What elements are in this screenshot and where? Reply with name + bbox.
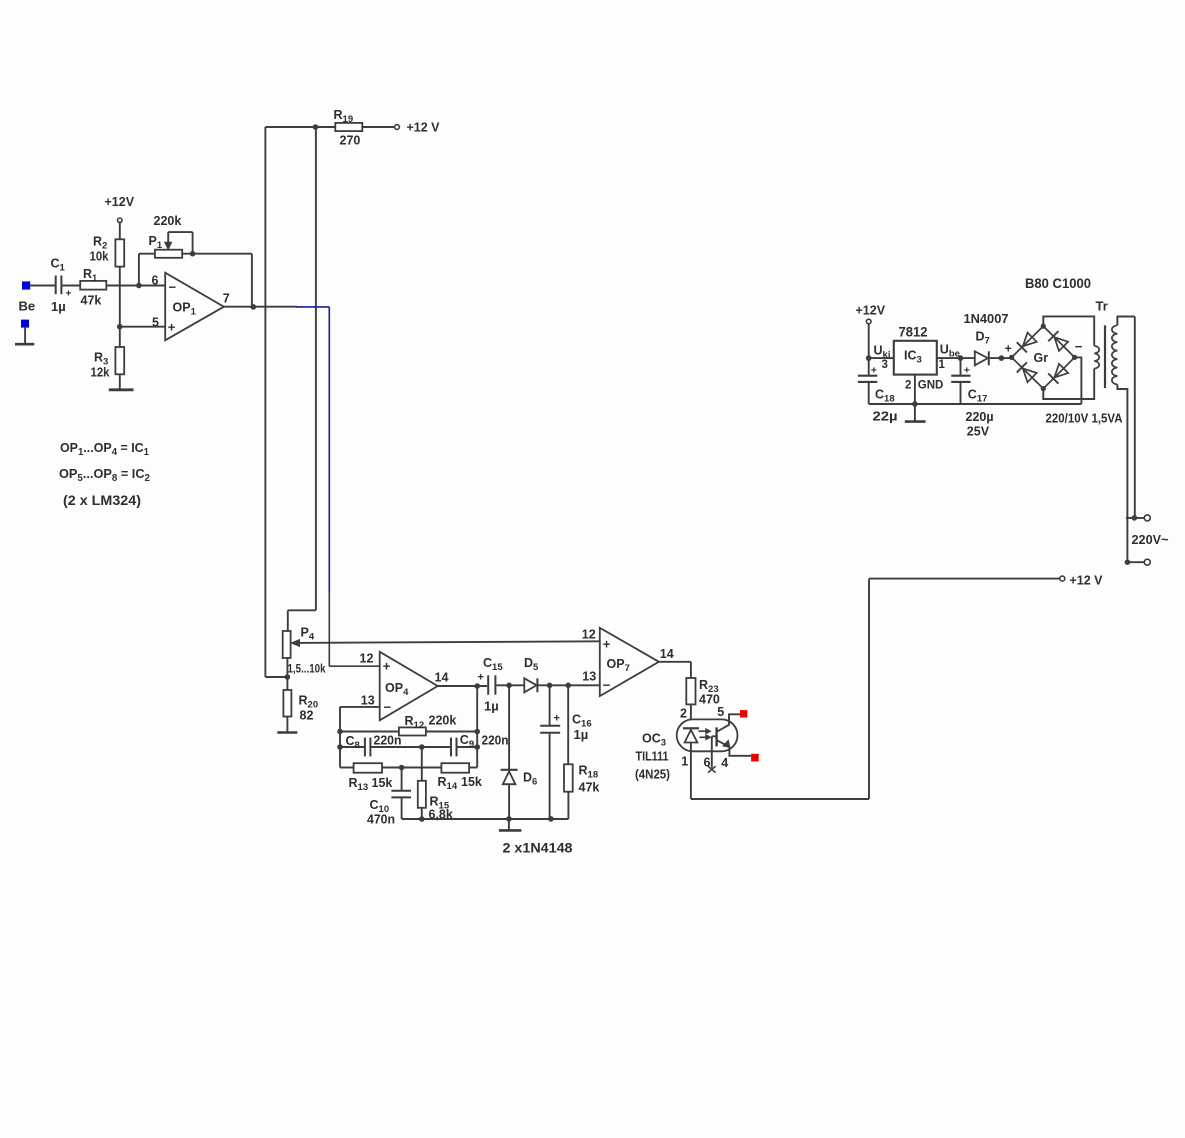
svg-text:15k: 15k <box>372 776 393 790</box>
svg-text:13: 13 <box>582 670 596 684</box>
svg-text:25V: 25V <box>967 425 990 439</box>
svg-text:+12 V: +12 V <box>1070 574 1104 588</box>
svg-text:TIL111: TIL111 <box>636 750 669 764</box>
svg-text:+: + <box>1005 342 1012 356</box>
svg-text:47k: 47k <box>579 781 600 795</box>
svg-text:14: 14 <box>660 647 674 661</box>
svg-text:1µ: 1µ <box>51 299 66 314</box>
svg-text:B80 C1000: B80 C1000 <box>1025 276 1091 291</box>
svg-text:10k: 10k <box>90 250 109 264</box>
svg-text:13: 13 <box>361 693 375 707</box>
svg-text:−: − <box>384 700 392 715</box>
svg-text:220n: 220n <box>482 734 509 748</box>
svg-text:12: 12 <box>582 628 596 642</box>
svg-text:GND: GND <box>918 380 944 392</box>
svg-text:−: − <box>169 280 177 295</box>
svg-text:220k: 220k <box>429 714 457 728</box>
svg-text:22µ: 22µ <box>873 410 898 424</box>
svg-text:12: 12 <box>360 652 374 666</box>
svg-text:5: 5 <box>152 315 159 329</box>
svg-text:+: + <box>554 713 560 725</box>
svg-text:5: 5 <box>717 705 724 719</box>
svg-text:4: 4 <box>721 756 728 770</box>
svg-text:−: − <box>603 678 611 693</box>
svg-text:2 x1N4148: 2 x1N4148 <box>503 841 574 856</box>
svg-text:1µ: 1µ <box>574 727 589 742</box>
svg-text:15k: 15k <box>461 775 482 789</box>
svg-text:12k: 12k <box>91 366 110 380</box>
svg-text:270: 270 <box>340 134 361 148</box>
svg-text:(2 x LM324): (2 x LM324) <box>63 493 141 508</box>
svg-text:1: 1 <box>681 755 688 769</box>
svg-text:−: − <box>1075 339 1083 354</box>
svg-text:6: 6 <box>152 274 159 288</box>
svg-text:470n: 470n <box>367 813 395 827</box>
svg-text:82: 82 <box>300 709 314 723</box>
svg-text:(4N25): (4N25) <box>635 768 670 782</box>
svg-text:1: 1 <box>939 359 946 371</box>
svg-text:+: + <box>168 320 176 335</box>
svg-text:+12V: +12V <box>105 195 135 209</box>
svg-text:+12 V: +12 V <box>407 121 441 135</box>
svg-text:14: 14 <box>435 671 449 685</box>
svg-text:+: + <box>478 672 484 684</box>
svg-text:1,5...10k: 1,5...10k <box>288 664 327 676</box>
svg-text:+12V: +12V <box>856 304 886 318</box>
svg-text:2: 2 <box>905 380 911 392</box>
svg-text:1N4007: 1N4007 <box>964 311 1009 326</box>
svg-text:+: + <box>964 365 970 377</box>
svg-text:7812: 7812 <box>899 325 928 340</box>
svg-text:Be: Be <box>19 299 36 314</box>
svg-text:6: 6 <box>704 756 711 770</box>
svg-text:3: 3 <box>882 359 888 371</box>
svg-text:220n: 220n <box>374 734 402 748</box>
svg-text:220V~: 220V~ <box>1132 533 1169 547</box>
svg-text:220k: 220k <box>154 214 182 228</box>
svg-text:+: + <box>66 289 72 300</box>
svg-text:+: + <box>603 637 611 652</box>
svg-text:220µ: 220µ <box>966 410 994 424</box>
svg-text:Gr: Gr <box>1034 351 1049 365</box>
svg-text:2: 2 <box>680 707 687 721</box>
svg-text:+: + <box>383 659 391 674</box>
svg-text:Tr: Tr <box>1096 299 1108 314</box>
svg-text:47k: 47k <box>81 294 102 308</box>
svg-text:7: 7 <box>223 292 230 306</box>
svg-text:220/10V 1,5VA: 220/10V 1,5VA <box>1046 412 1123 426</box>
svg-text:+: + <box>871 365 877 377</box>
svg-text:1µ: 1µ <box>484 699 499 714</box>
